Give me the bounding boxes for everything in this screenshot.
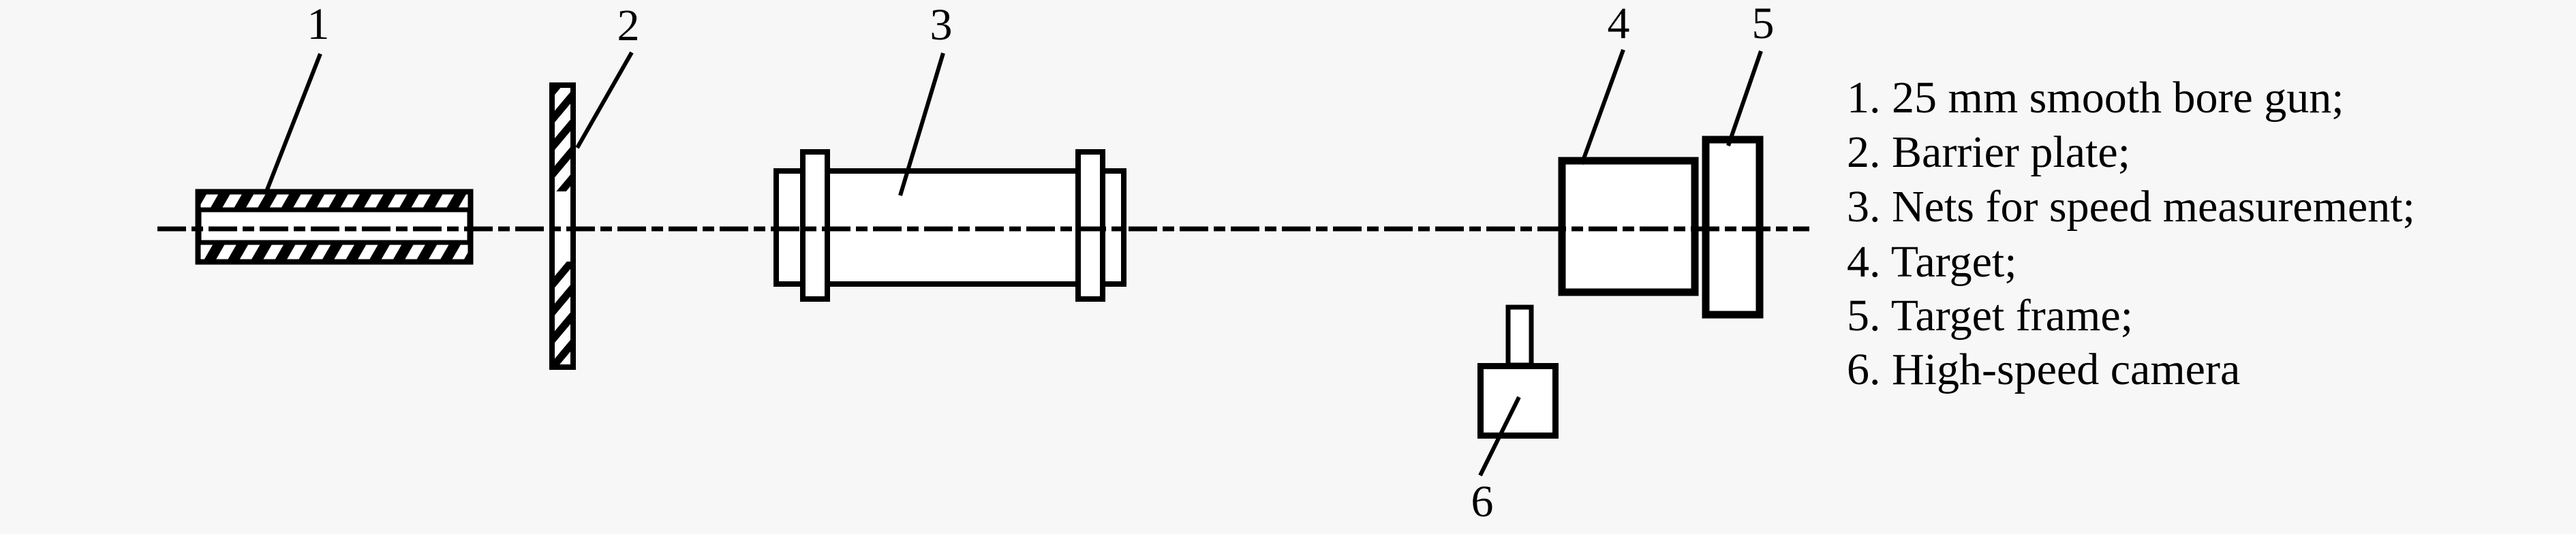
svg-text:3. Nets for speed measurement;: 3. Nets for speed measurement;: [1847, 182, 2415, 232]
svg-text:6. High-speed camera: 6. High-speed camera: [1847, 345, 2240, 394]
svg-text:2. Barrier plate;: 2. Barrier plate;: [1847, 127, 2130, 177]
svg-text:1. 25 mm smooth bore gun;: 1. 25 mm smooth bore gun;: [1847, 73, 2344, 123]
svg-text:5: 5: [1752, 0, 1775, 48]
svg-text:1: 1: [307, 0, 330, 49]
svg-text:4: 4: [1608, 0, 1630, 48]
svg-text:5. Target frame;: 5. Target frame;: [1847, 291, 2133, 341]
svg-text:6: 6: [1471, 477, 1494, 527]
svg-text:3: 3: [930, 0, 953, 50]
svg-text:4. Target;: 4. Target;: [1847, 237, 2017, 287]
svg-text:2: 2: [617, 1, 640, 50]
